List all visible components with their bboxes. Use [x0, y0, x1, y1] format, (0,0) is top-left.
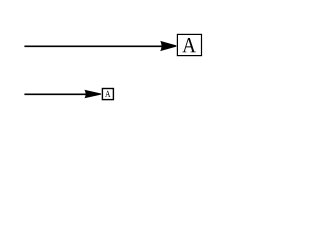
wire (bottom arrow shaft)	[24, 93, 90, 95]
node A (small framebox)	[102, 89, 113, 100]
label A (large)	[182, 38, 195, 52]
arrowhead (top arrow tip)	[160, 41, 176, 51]
arrowhead (bottom arrow tip)	[84, 90, 101, 99]
label A (small)	[105, 91, 110, 97]
wire (top arrow shaft)	[24, 45, 166, 47]
node A (large framebox)	[177, 34, 201, 55]
